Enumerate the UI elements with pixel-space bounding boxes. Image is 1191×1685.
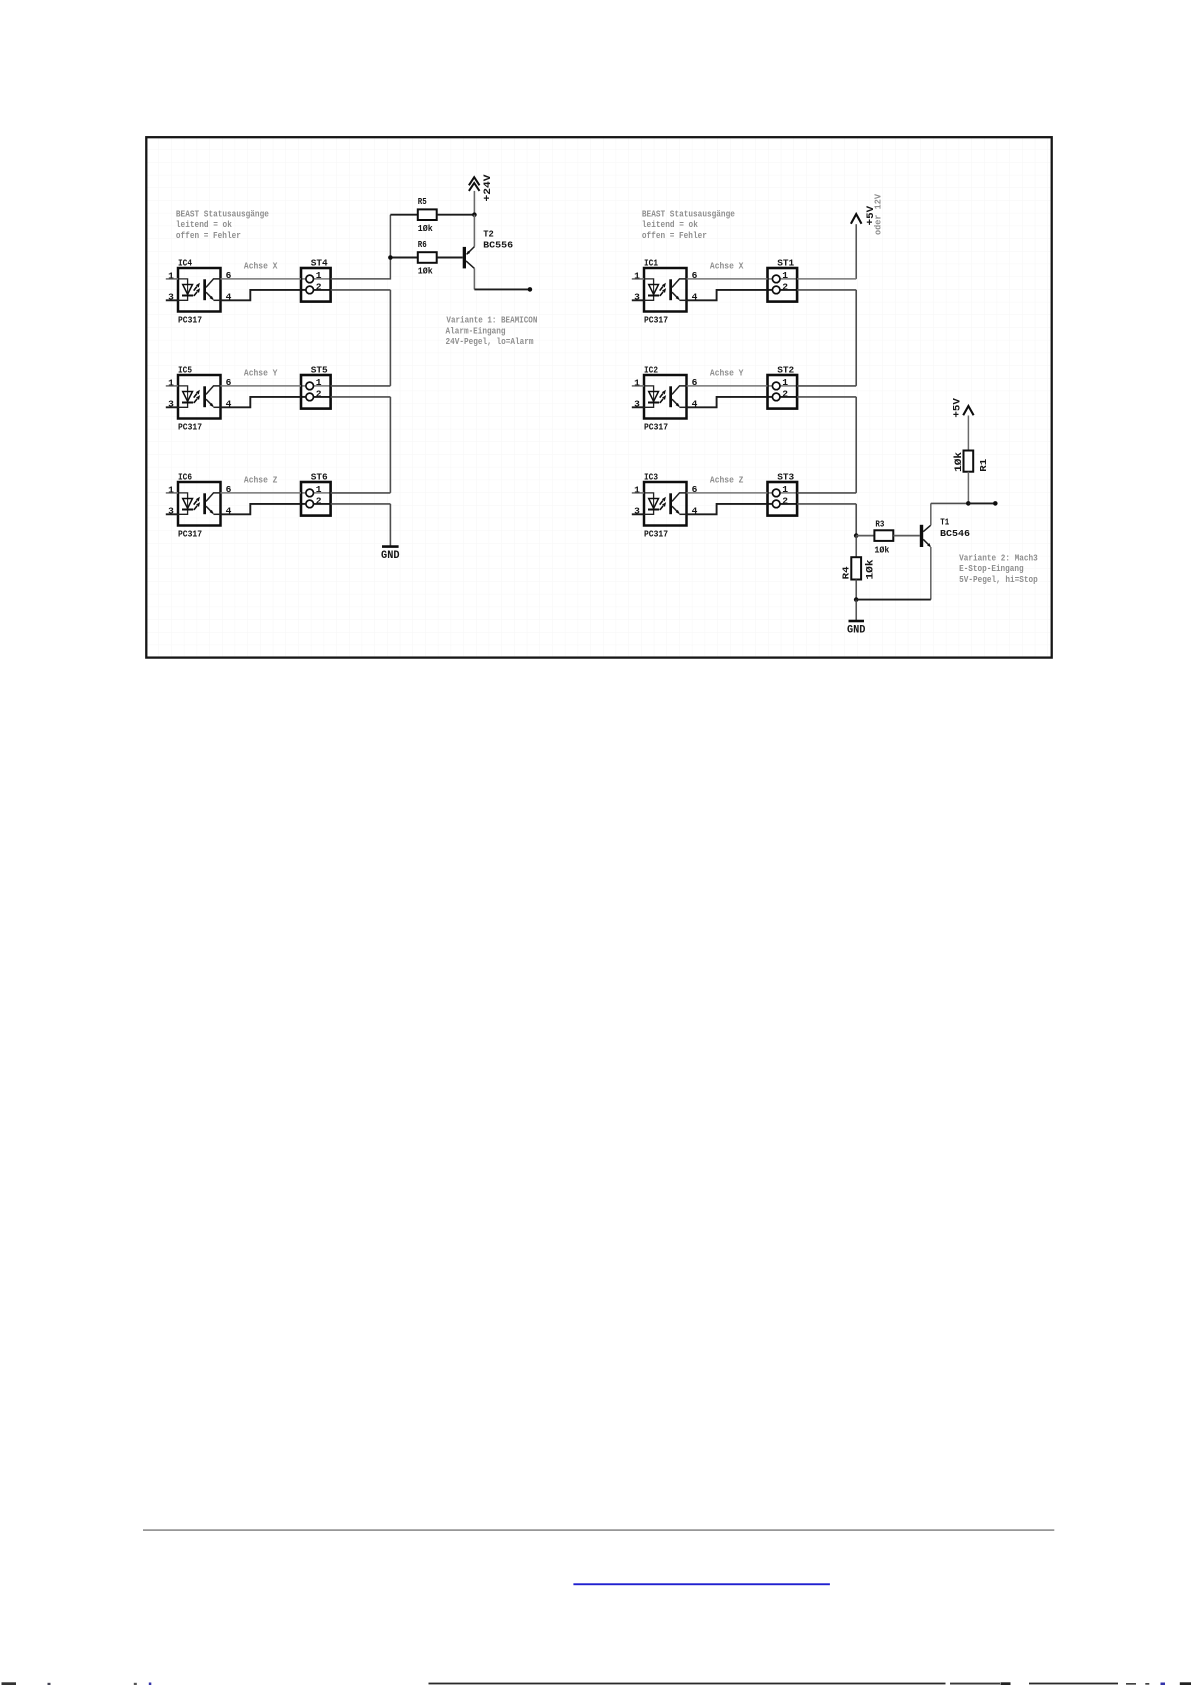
svg-text:R4: R4 bbox=[840, 566, 851, 579]
svg-text:E-Stop-Eingang: E-Stop-Eingang bbox=[959, 563, 1024, 574]
ground GND right bbox=[847, 621, 866, 637]
svg-text:ST5: ST5 bbox=[311, 364, 328, 375]
resistor R5 bbox=[418, 196, 437, 234]
wire T1 emitter to R4 node bbox=[856, 599, 931, 601]
svg-text:IC6: IC6 bbox=[178, 471, 192, 482]
wire ST4 pin1 to R5/R6 node bbox=[331, 215, 391, 279]
node output endpoint right bbox=[993, 501, 998, 506]
junction node R4/T1 emitter bbox=[854, 597, 859, 602]
connector ST2 bbox=[768, 364, 798, 408]
svg-text:R3: R3 bbox=[875, 518, 884, 529]
svg-text:leitend = ok: leitend = ok bbox=[176, 219, 232, 230]
svg-text:PC317: PC317 bbox=[178, 314, 202, 325]
svg-text:ST6: ST6 bbox=[311, 471, 328, 482]
svg-text:IC4: IC4 bbox=[178, 257, 192, 268]
svg-text:IC5: IC5 bbox=[178, 364, 192, 375]
wire T1 collector to R1 node bbox=[931, 502, 969, 504]
svg-text:T2: T2 bbox=[483, 229, 494, 240]
wire IC5 pin6 to ST5 pin1 bbox=[221, 385, 302, 387]
svg-text:BEAST Statusausgänge: BEAST Statusausgänge bbox=[642, 208, 735, 219]
svg-text:Alarm-Eingang: Alarm-Eingang bbox=[446, 325, 506, 336]
svg-text:Variante 2: Mach3: Variante 2: Mach3 bbox=[959, 552, 1038, 563]
svg-text:T1: T1 bbox=[940, 517, 949, 528]
svg-text:R6: R6 bbox=[418, 239, 427, 250]
svg-text:BC556: BC556 bbox=[483, 239, 513, 250]
wire output stub bbox=[968, 502, 995, 504]
svg-text:Variante 1: BEAMICON: Variante 1: BEAMICON bbox=[446, 315, 537, 326]
junction node +24V/R5/T2 bbox=[472, 212, 477, 217]
optocoupler IC3 bbox=[632, 471, 698, 539]
svg-text:PC317: PC317 bbox=[178, 528, 202, 539]
node output endpoint bbox=[528, 287, 533, 292]
svg-text:BEAST Statusausgänge: BEAST Statusausgänge bbox=[176, 208, 269, 219]
junction node R1/T1 collector bbox=[966, 501, 971, 506]
svg-text:ST2: ST2 bbox=[777, 364, 794, 375]
svg-text:GND: GND bbox=[847, 625, 866, 637]
svg-text:leitend = ok: leitend = ok bbox=[642, 219, 698, 230]
resistor R1 bbox=[953, 451, 989, 504]
note: Variante 2 text block bbox=[959, 552, 1038, 585]
note: BEAST Statusausgänge text block (right) bbox=[642, 208, 735, 241]
wire IC2 pin4 to ST2 pin2 bbox=[687, 397, 768, 407]
svg-text:1Øk: 1Øk bbox=[953, 452, 965, 472]
schematic background grid bbox=[147, 138, 1050, 656]
svg-text:PC317: PC317 bbox=[178, 421, 202, 432]
wire node to R5 bbox=[390, 214, 417, 216]
svg-text:1Øk: 1Øk bbox=[864, 560, 876, 580]
junction node R6 bbox=[388, 255, 393, 260]
optocoupler IC2 bbox=[632, 364, 698, 432]
wire ST5 pin2 to ST6 pin1 bbox=[331, 397, 391, 493]
note: Variante 1 text block bbox=[446, 315, 538, 348]
svg-text:ST1: ST1 bbox=[777, 257, 794, 268]
power +24V bbox=[469, 175, 494, 215]
connector ST3 bbox=[768, 471, 798, 515]
wire IC4 pin6 to ST4 pin1 bbox=[221, 278, 302, 280]
wire node to R6 bbox=[390, 257, 417, 259]
svg-text:BC546: BC546 bbox=[940, 528, 970, 539]
wire ST1 pin1 to +5V rail bbox=[797, 278, 856, 280]
svg-text:oder 12V: oder 12V bbox=[874, 193, 884, 235]
wire node to R3 bbox=[856, 535, 874, 537]
wire T2 collector output bbox=[474, 288, 530, 290]
wire IC6 pin4 to ST6 pin2 bbox=[221, 504, 302, 514]
optocoupler IC5 bbox=[166, 364, 232, 432]
svg-text:ST3: ST3 bbox=[777, 471, 794, 482]
svg-text:IC1: IC1 bbox=[644, 257, 658, 268]
wire IC1 pin4 to ST1 pin2 bbox=[687, 290, 768, 300]
resistor R6 bbox=[418, 239, 437, 276]
wire IC3 pin4 to ST3 pin2 bbox=[687, 504, 768, 514]
svg-text:Achse X: Achse X bbox=[244, 261, 278, 272]
wire R6 to T2 base bbox=[437, 257, 463, 259]
svg-text:5V-Pegel, hi=Stop: 5V-Pegel, hi=Stop bbox=[959, 574, 1038, 585]
wire ST6 pin2 to GND bbox=[331, 504, 391, 546]
svg-text:Achse Z: Achse Z bbox=[244, 475, 278, 486]
transistor T1 bbox=[920, 503, 971, 599]
wire R3 to T1 base bbox=[893, 535, 920, 537]
svg-text:Achse X: Achse X bbox=[710, 261, 744, 272]
svg-text:offen = Fehler: offen = Fehler bbox=[642, 230, 707, 241]
wire ST1 pin2 to ST2 pin1 bbox=[797, 290, 856, 386]
wire IC2 pin6 to ST2 pin1 bbox=[687, 385, 768, 387]
optocoupler IC6 bbox=[166, 471, 232, 539]
svg-text:IC2: IC2 bbox=[644, 364, 658, 375]
transistor T2 bbox=[463, 215, 514, 290]
svg-text:PC317: PC317 bbox=[644, 314, 668, 325]
svg-text:24V-Pegel, lo=Alarm: 24V-Pegel, lo=Alarm bbox=[446, 336, 534, 347]
wire IC5 pin4 to ST5 pin2 bbox=[221, 397, 302, 407]
connector ST4 bbox=[301, 257, 331, 301]
wire ST3 pin2 to R3/R4 node bbox=[797, 504, 856, 536]
svg-text:+5V: +5V bbox=[953, 398, 964, 418]
wire ST2 pin2 to ST3 pin1 bbox=[797, 397, 856, 493]
svg-text:R1: R1 bbox=[978, 458, 989, 471]
connector ST6 bbox=[301, 471, 331, 515]
svg-text:+24V: +24V bbox=[483, 175, 494, 202]
svg-text:Achse Z: Achse Z bbox=[710, 475, 744, 486]
note: BEAST Statusausgänge text block (left) bbox=[176, 208, 269, 241]
connector ST1 bbox=[768, 257, 798, 301]
note: cut-off text fragments at bottom edge bbox=[2, 1682, 1191, 1685]
svg-text:R5: R5 bbox=[418, 196, 427, 207]
svg-text:1Øk: 1Øk bbox=[874, 545, 889, 556]
power +5V at R1 bbox=[953, 398, 974, 450]
resistor R3 bbox=[874, 518, 893, 555]
svg-text:PC317: PC317 bbox=[644, 528, 668, 539]
wire IC6 pin6 to ST6 pin1 bbox=[221, 492, 302, 494]
link underline (blue) bbox=[573, 1583, 830, 1585]
svg-text:1Øk: 1Øk bbox=[418, 223, 433, 234]
svg-text:1Øk: 1Øk bbox=[418, 265, 433, 276]
optocoupler IC4 bbox=[166, 257, 232, 325]
ground GND left bbox=[381, 547, 400, 562]
wire ST4 pin2 to ST5 pin1 bbox=[331, 290, 391, 386]
footer hairline rule bbox=[143, 1529, 1054, 1531]
wire IC3 pin6 to ST3 pin1 bbox=[687, 492, 768, 494]
wire IC1 pin6 to ST1 pin1 bbox=[687, 278, 768, 280]
svg-text:Achse Y: Achse Y bbox=[244, 368, 278, 379]
wire R5 to +24V rail bbox=[437, 214, 475, 216]
svg-text:Achse Y: Achse Y bbox=[710, 368, 744, 379]
optocoupler IC1 bbox=[632, 257, 698, 325]
svg-text:ST4: ST4 bbox=[311, 257, 328, 268]
wire IC4 pin4 to ST4 pin2 bbox=[221, 290, 302, 300]
wire node to GND right bbox=[855, 600, 857, 621]
svg-text:PC317: PC317 bbox=[644, 421, 668, 432]
power +5V oder 12V bbox=[851, 193, 884, 279]
svg-text:GND: GND bbox=[381, 550, 400, 562]
schematic frame border bbox=[146, 137, 1051, 657]
resistor R4 bbox=[840, 536, 876, 600]
svg-text:IC3: IC3 bbox=[644, 471, 658, 482]
connector ST5 bbox=[301, 364, 331, 408]
junction node R3/R4 bbox=[854, 533, 859, 538]
svg-text:offen = Fehler: offen = Fehler bbox=[176, 230, 241, 241]
